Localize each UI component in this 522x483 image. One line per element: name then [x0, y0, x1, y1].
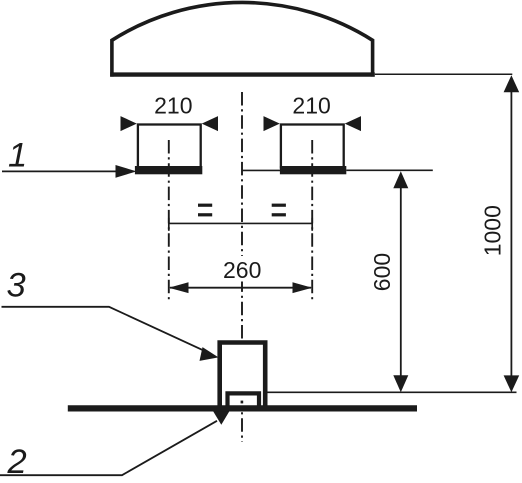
svg-text:260: 260: [223, 257, 261, 283]
node: left luminaire centerline: [168, 140, 170, 301]
dimension 1000: top arrowhead: [504, 75, 520, 92]
dimension 1000: bottom arrowhead: [504, 375, 520, 392]
svg-text:1000: 1000: [479, 205, 505, 256]
leader 2 line: [0, 421, 217, 475]
svg-text:3: 3: [7, 266, 26, 304]
svg-text:2: 2: [7, 443, 27, 481]
dimension 260: left arrowhead: [169, 282, 189, 293]
leader 1 arrowhead: [116, 165, 137, 178]
svg-text:1: 1: [8, 137, 27, 175]
leader 3 arrowhead: [200, 347, 219, 361]
luminaire 1 left body: [138, 125, 201, 168]
luminaire 1 right body: [281, 125, 344, 168]
dimension 600: vertical line: [400, 186, 402, 378]
equal sign right: [272, 204, 286, 217]
dimension 210 right: left arrowhead: [264, 116, 280, 131]
equal sign left: [198, 204, 212, 217]
wire: mounting line from axis to right luminaire: [242, 169, 281, 171]
dimension 600: bottom arrowhead: [393, 375, 408, 392]
dimension 260: line: [170, 287, 311, 289]
dimension 1000: vertical line: [510, 90, 512, 378]
luminaire 1 left base bar: [135, 166, 202, 174]
pole base insert (item 2): [228, 393, 260, 409]
leader 3 line: [2, 307, 211, 354]
svg-text:210: 210: [292, 93, 330, 119]
dimension 210 right: right arrowhead: [345, 116, 361, 131]
wire: bottom reference line for 600 and 1000 dimensions: [266, 391, 517, 393]
dimension 210 left: right arrowhead: [202, 116, 218, 131]
node: centerline dot inside base insert: [241, 401, 244, 404]
pole body (item 3): [220, 343, 266, 411]
node: central axis (dash-dot centerline): [241, 92, 243, 442]
dimension 600: top arrowhead: [393, 171, 408, 188]
wire: extension line from canopy base to 1000 dimension: [375, 73, 513, 75]
ground thick line: [68, 405, 417, 411]
canopy base thick line: [110, 72, 375, 76]
svg-text:600: 600: [369, 253, 395, 291]
dimension 210 left: left arrowhead: [121, 116, 137, 131]
dimension 260: right arrowhead: [293, 282, 313, 293]
dimension 260: value label: [222, 256, 264, 282]
canopy dome outline: [112, 2, 373, 76]
equality line left end tick: [168, 218, 170, 231]
luminaire 1 right base bar: [280, 166, 346, 174]
leader 1 line: [2, 170, 121, 172]
leader 2 arrowhead: [213, 411, 229, 424]
equality line between centerlines: [169, 222, 312, 224]
svg-text:210: 210: [154, 93, 192, 119]
wire: mounting line right of luminaire to 600 dimension: [346, 169, 433, 171]
equality line right end tick: [311, 218, 313, 231]
node: right luminaire centerline: [311, 140, 313, 301]
